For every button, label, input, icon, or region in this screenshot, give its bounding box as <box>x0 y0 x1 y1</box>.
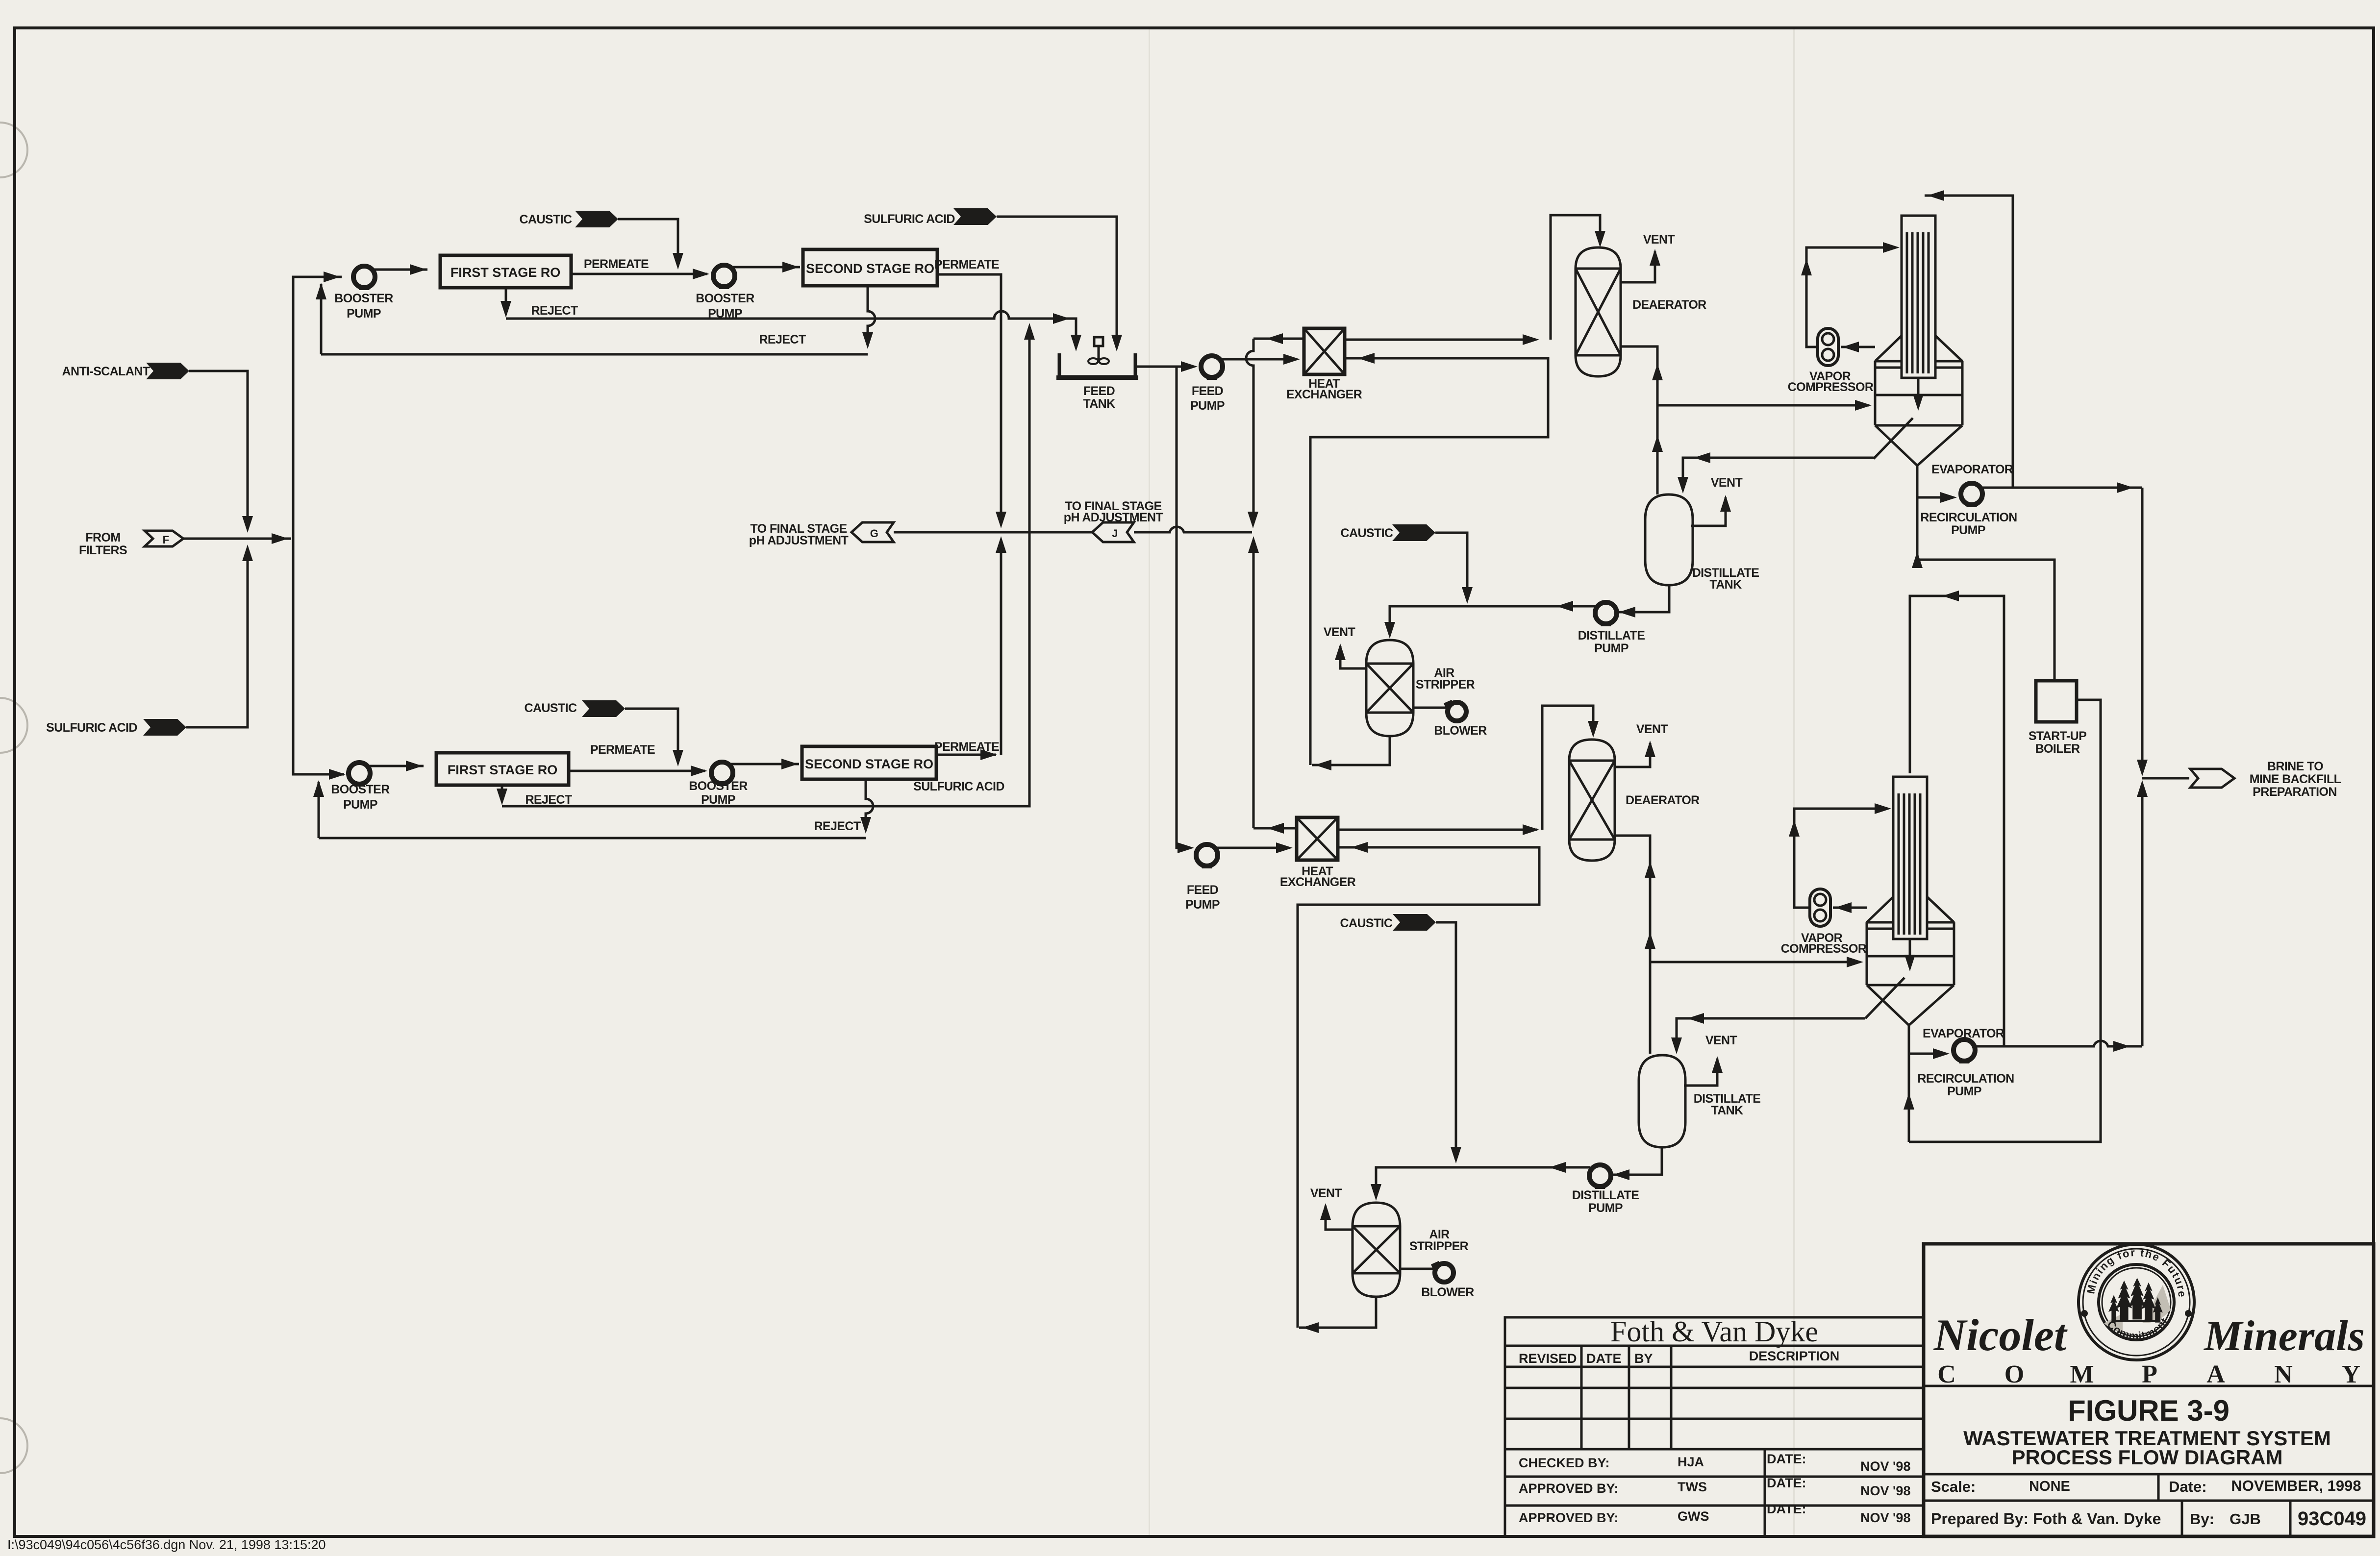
evaporator 1 body <box>1875 361 1962 425</box>
recirculation pump 2 <box>1954 1039 1975 1063</box>
svg-text:Prepared By: Foth & Van. Dyke: Prepared By: Foth & Van. Dyke <box>1931 1510 2161 1528</box>
svg-text:FIGURE 3-9: FIGURE 3-9 <box>2068 1394 2230 1427</box>
svg-text:SULFURIC ACID: SULFURIC ACID <box>46 721 137 735</box>
svg-text:SECOND STAGE RO: SECOND STAGE RO <box>806 261 934 276</box>
feed header vertical <box>293 277 342 539</box>
date column divider <box>1764 1449 1766 1536</box>
svg-text:STRIPPER: STRIPPER <box>1416 678 1475 692</box>
svg-text:FEED: FEED <box>1187 883 1218 897</box>
wire anti-scalant to junction <box>189 371 248 523</box>
svg-text:PUMP: PUMP <box>1947 1085 1981 1098</box>
compressor 1 suction from evaporator <box>1841 346 1875 348</box>
distillate tank 1 vessel <box>1645 494 1693 585</box>
svg-text:Foth & Van Dyke: Foth & Van Dyke <box>1610 1315 1818 1348</box>
SECOND STAGE RO box lower <box>802 746 936 779</box>
svg-text:VENT: VENT <box>1711 476 1743 490</box>
svg-text:BOOSTER: BOOSTER <box>696 292 754 305</box>
svg-text:MINE BACKFILL: MINE BACKFILL <box>2250 772 2341 786</box>
svg-text:APPROVED BY:: APPROVED BY: <box>1519 1510 1619 1525</box>
lower reject header to riser <box>502 327 1029 806</box>
booster pump 1 <box>353 266 375 290</box>
distillate pump 1 discharge to air stripper <box>1390 606 1596 635</box>
svg-text:NOV '98: NOV '98 <box>1860 1510 1910 1525</box>
punch hole bottom left <box>0 1418 27 1473</box>
svg-text:FEED: FEED <box>1192 384 1223 398</box>
svg-text:VENT: VENT <box>1643 233 1675 247</box>
trees <box>2108 1278 2163 1322</box>
svg-text:EXCHANGER: EXCHANGER <box>1280 875 1356 889</box>
evaporator 2 feed diagonal <box>1865 978 1904 1018</box>
svg-text:pH ADJUSTMENT: pH ADJUSTMENT <box>749 534 849 547</box>
HX1 distillate return from stripper circuit <box>1310 358 1548 765</box>
deaerator 2 vent <box>1615 743 1650 767</box>
evaporator 1 cone <box>1875 425 1962 466</box>
tank outlet wire to feed pump <box>1135 366 1191 368</box>
svg-text:BOOSTER: BOOSTER <box>689 779 748 793</box>
svg-text:APPROVED BY:: APPROVED BY: <box>1519 1481 1619 1496</box>
svg-text:TANK: TANK <box>1711 1104 1743 1117</box>
deaerator 1 bottom connection to tee <box>1621 346 1657 494</box>
svg-text:TANK: TANK <box>1083 397 1115 411</box>
svg-text:DEAERATOR: DEAERATOR <box>1632 298 1706 312</box>
wire from F flag to feed header <box>183 538 291 540</box>
svg-text:FROM: FROM <box>85 531 120 544</box>
svg-text:NONE: NONE <box>2029 1479 2070 1494</box>
svg-text:NOV '98: NOV '98 <box>1860 1483 1910 1498</box>
reject header to feed tank (hop over permeate riser) <box>506 311 1076 348</box>
svg-text:CAUSTIC: CAUSTIC <box>1341 526 1393 540</box>
company block frame <box>1924 1244 2374 1536</box>
svg-text:DISTILLATE: DISTILLATE <box>1578 629 1645 642</box>
curved text <box>2094 1256 2179 1305</box>
svg-text:BY: BY <box>1634 1351 1653 1366</box>
compressor 2 discharge to column top <box>1794 809 1888 908</box>
feed pump 2 discharge to heat exchanger 2 <box>1217 847 1289 849</box>
distillate tank 1 outlet to pump <box>1618 585 1669 612</box>
distillate pump 2 <box>1589 1165 1611 1189</box>
company logo seal <box>2079 1244 2194 1360</box>
svg-text:FIRST STAGE RO: FIRST STAGE RO <box>448 763 558 777</box>
svg-text:CHECKED BY:: CHECKED BY: <box>1519 1456 1610 1470</box>
HX1 distillate outlet to J riser <box>1253 338 1304 340</box>
svg-text:NOV '98: NOV '98 <box>1860 1459 1910 1474</box>
revision table column lines <box>1581 1346 1671 1449</box>
recirculation riser 2 with hop over boiler line <box>1910 596 2142 1046</box>
second stage reject drop lower with hop <box>866 779 873 827</box>
svg-text:VENT: VENT <box>1705 1034 1737 1047</box>
recirculation pump 1 suction <box>1917 496 1954 499</box>
evaporator 2 tube column <box>1893 777 1927 939</box>
svg-text:REJECT: REJECT <box>525 793 572 807</box>
condensate return to distillate tank 2 <box>1677 1018 1865 1051</box>
svg-text:O: O <box>2004 1360 2024 1388</box>
svg-text:BOOSTER: BOOSTER <box>334 292 393 305</box>
punch hole middle left <box>0 698 27 753</box>
compressor 2 suction from evaporator <box>1833 907 1867 909</box>
brine flag <box>2190 769 2234 788</box>
svg-text:DISTILLATE: DISTILLATE <box>1572 1188 1639 1202</box>
deaerator 1 vent <box>1621 251 1655 282</box>
sulfuric acid feed flag top middle <box>953 208 997 225</box>
svg-text:DATE:: DATE: <box>1767 1502 1806 1516</box>
svg-text:PREPARATION: PREPARATION <box>2253 785 2337 799</box>
svg-text:ANTI-SCALANT: ANTI-SCALANT <box>62 365 150 378</box>
tee down to lower feed pump <box>1177 367 1190 848</box>
permeate wire lower RO1 to pump2 <box>569 770 705 772</box>
evaporator 2 feed tee wire <box>1650 961 1860 963</box>
svg-text:PUMP: PUMP <box>1190 399 1225 413</box>
heat exchanger 2 box <box>1297 817 1338 860</box>
scan fold crease left of feed pump column <box>1149 28 1150 1536</box>
anti-scalant feed flag <box>146 363 189 379</box>
feed pump 1 <box>1201 356 1223 380</box>
HX2 distillate outlet to J riser <box>1253 827 1297 830</box>
recirculation pump 2 suction <box>1909 1053 1946 1055</box>
scan fold crease through evaporator column <box>1793 28 1795 1536</box>
svg-text:Y: Y <box>2342 1360 2360 1388</box>
svg-text:PUMP: PUMP <box>701 793 735 807</box>
svg-text:I:\93c049\94c056\4c56f36.dgn: I:\93c049\94c056\4c56f36.dgn Nov. 21, 19… <box>7 1537 326 1552</box>
svg-text:PUMP: PUMP <box>1588 1201 1623 1215</box>
second stage reject drop with hop over header <box>868 286 875 343</box>
svg-text:PERMEATE: PERMEATE <box>934 258 999 272</box>
svg-text:SULFURIC ACID: SULFURIC ACID <box>864 212 955 226</box>
wire sulfuric acid to junction <box>186 554 248 727</box>
brine header from unit 1 <box>2141 488 2144 772</box>
air stripper 1 vessel <box>1366 640 1413 736</box>
caustic feed flag lower <box>582 700 625 717</box>
svg-text:DEAERATOR: DEAERATOR <box>1626 793 1700 807</box>
svg-text:PUMP: PUMP <box>1594 642 1628 655</box>
condensate return to distillate tank 1 <box>1683 458 1874 490</box>
FIRST STAGE RO box <box>440 255 571 288</box>
evaporator 1 feed tee wire <box>1657 404 1869 407</box>
evaporator 1 tube column <box>1902 216 1935 378</box>
svg-text:GWS: GWS <box>1678 1509 1709 1524</box>
recycle riser to pump 1 feed <box>320 284 323 354</box>
svg-text:BOOSTER: BOOSTER <box>331 783 390 796</box>
svg-text:PUMP: PUMP <box>1951 523 1985 537</box>
distillate pump 1 <box>1595 602 1617 626</box>
svg-text:DATE:: DATE: <box>1767 1452 1806 1466</box>
air stripper 2 vessel <box>1353 1203 1400 1297</box>
caustic feed flag stripper 2 <box>1393 914 1436 931</box>
boiler steam wire to evaporator 1 <box>1917 560 2054 681</box>
svg-text:N: N <box>2274 1360 2293 1388</box>
flag G <box>852 522 894 542</box>
svg-text:DATE: DATE <box>1586 1351 1622 1366</box>
air stripper 1 bottoms to HX return riser <box>1312 736 1390 765</box>
svg-text:RECIRCULATION: RECIRCULATION <box>1920 511 2017 524</box>
svg-text:Nicolet: Nicolet <box>1933 1310 2068 1360</box>
svg-text:BRINE TO: BRINE TO <box>2267 760 2323 773</box>
feed tank vessel <box>1059 353 1135 377</box>
svg-text:PERMEATE: PERMEATE <box>584 257 649 271</box>
lower reject recycle wire <box>319 837 866 840</box>
svg-text:COMPRESSOR: COMPRESSOR <box>1781 942 1867 956</box>
svg-text:93C049: 93C049 <box>2298 1508 2366 1530</box>
svg-text:RECIRCULATION: RECIRCULATION <box>1917 1072 2014 1086</box>
evaporator 2 shoulders <box>1867 897 1954 922</box>
SECOND STAGE RO box <box>803 249 937 286</box>
svg-text:REJECT: REJECT <box>531 304 577 318</box>
revision table outer frame <box>1505 1317 1924 1536</box>
svg-text:DESCRIPTION: DESCRIPTION <box>1749 1349 1840 1363</box>
svg-text:GJB: GJB <box>2230 1510 2261 1528</box>
boiler wire to evaporator 2 <box>1909 700 2101 1142</box>
svg-text:BLOWER: BLOWER <box>1434 724 1487 738</box>
svg-text:CAUSTIC: CAUSTIC <box>525 701 577 715</box>
svg-text:PUMP: PUMP <box>347 307 381 321</box>
svg-text:FILTERS: FILTERS <box>79 543 127 557</box>
svg-text:PUMP: PUMP <box>1185 898 1220 912</box>
svg-text:P: P <box>2142 1360 2157 1388</box>
caustic feed flag stripper 1 <box>1392 524 1435 541</box>
feed pump 2 <box>1196 844 1218 868</box>
svg-text:VENT: VENT <box>1636 722 1668 736</box>
distillate verticals into J junction <box>1246 339 1253 519</box>
sulfuric wire into feed tank <box>997 217 1117 348</box>
svg-text:BLOWER: BLOWER <box>1421 1285 1474 1299</box>
evaporator 2 body <box>1867 922 1954 985</box>
svg-text:SECOND STAGE RO: SECOND STAGE RO <box>805 757 933 771</box>
recirculation riser 1 <box>1925 196 2142 488</box>
svg-text:EVAPORATOR: EVAPORATOR <box>1931 463 2013 476</box>
HX2 feed outlet to deaerator 2 jog <box>1338 829 1537 831</box>
svg-text:CAUSTIC: CAUSTIC <box>1340 916 1393 930</box>
deaerator 2 bottom connection to tee <box>1615 836 1650 1054</box>
flag F <box>145 531 183 546</box>
svg-text:CAUSTIC: CAUSTIC <box>520 213 572 226</box>
blower 2 <box>1400 1268 1434 1270</box>
air stripper 1 vent <box>1340 646 1366 668</box>
svg-text:EXCHANGER: EXCHANGER <box>1286 388 1362 401</box>
svg-text:BOILER: BOILER <box>2035 742 2080 756</box>
punch hole top left <box>0 123 27 177</box>
evaporator 1 bottom outlet line <box>1916 466 1919 560</box>
evaporator 2 cone <box>1867 985 1954 1025</box>
reject drop from first stage RO <box>505 288 507 313</box>
svg-text:FIRST STAGE RO: FIRST STAGE RO <box>451 265 561 280</box>
svg-text:PUMP: PUMP <box>708 307 742 321</box>
svg-text:Date:: Date: <box>2169 1478 2207 1495</box>
svg-text:PROCESS FLOW DIAGRAM: PROCESS FLOW DIAGRAM <box>2012 1446 2283 1469</box>
svg-text:REJECT: REJECT <box>759 333 805 346</box>
deaerator 1 vessel <box>1576 247 1621 376</box>
riser from lower reject header (up arrow) <box>1024 323 1035 340</box>
FIRST STAGE RO box lower <box>436 753 569 785</box>
evaporator 1 shoulders <box>1875 336 1962 361</box>
HX2 distillate return from stripper circuit <box>1298 847 1539 1328</box>
distillate tank 1 vent <box>1691 497 1726 526</box>
flag J <box>1092 522 1134 542</box>
distillate tank 2 vent <box>1684 1059 1717 1086</box>
svg-text:F: F <box>163 534 169 546</box>
evaporator 1 feed diagonal <box>1874 418 1913 459</box>
evaporator 1 center drop <box>1917 378 1920 405</box>
svg-text:Scale:: Scale: <box>1931 1478 1976 1495</box>
G line to permeate junction <box>894 531 1092 534</box>
air stripper 2 vent <box>1326 1206 1353 1230</box>
reject drop lower first stage <box>501 785 503 800</box>
svg-text:HJA: HJA <box>1678 1455 1704 1469</box>
compressor 1 discharge to column top <box>1806 247 1896 347</box>
svg-text:START-UP: START-UP <box>2029 729 2086 743</box>
caustic wire into stripper 2 feed line <box>1436 922 1456 1159</box>
svg-text:NOVEMBER, 1998: NOVEMBER, 1998 <box>2231 1477 2361 1494</box>
svg-text:By:: By: <box>2190 1510 2214 1528</box>
vapor compressor 1 <box>1818 328 1838 366</box>
feed header to lower train <box>293 539 344 774</box>
svg-text:SULFURIC ACID: SULFURIC ACID <box>913 780 1004 793</box>
svg-text:TANK: TANK <box>1709 578 1742 592</box>
evaporator 2 bottom outlet line <box>1908 1025 1910 1142</box>
brine junction line to flag <box>2142 777 2189 780</box>
svg-text:STRIPPER: STRIPPER <box>1409 1239 1469 1253</box>
reject recycle line back to pump1 <box>321 353 868 356</box>
agitator <box>1094 337 1103 346</box>
svg-text:PERMEATE: PERMEATE <box>934 740 999 754</box>
recirculation pump 1 <box>1961 483 1982 507</box>
vapor compressor 2 <box>1810 889 1830 926</box>
mountain halftone <box>2142 1285 2171 1323</box>
distillate tank 2 vessel <box>1639 1055 1685 1147</box>
caustic wire into permeate line <box>618 219 678 261</box>
caustic wire into stripper feed line <box>1435 533 1467 599</box>
evaporator 2 center drop <box>1909 939 1911 965</box>
svg-text:A: A <box>2206 1360 2225 1388</box>
recycle riser to lower pump feed <box>318 782 320 838</box>
svg-text:REVISED: REVISED <box>1519 1351 1577 1366</box>
booster pump 2 <box>713 265 735 289</box>
air stripper 2 bottoms to HX2 return riser <box>1299 1297 1376 1328</box>
distillate tank 2 outlet to pump <box>1612 1147 1662 1175</box>
caustic wire into lower permeate <box>625 709 678 759</box>
permeate wire RO1 to booster pump 2 <box>571 273 707 275</box>
permeate wire lower RO2 up to G junction <box>936 754 996 756</box>
svg-text:FEED: FEED <box>1083 384 1115 398</box>
svg-text:REJECT: REJECT <box>814 819 860 833</box>
brine from unit 2 <box>2141 784 2144 1046</box>
feed pump 1 discharge to heat exchanger <box>1221 358 1297 361</box>
svg-text:DATE:: DATE: <box>1767 1476 1806 1490</box>
wire lower pump1 to first stage RO <box>367 765 424 767</box>
svg-text:COMPRESSOR: COMPRESSOR <box>1788 380 1874 394</box>
svg-text:PERMEATE: PERMEATE <box>590 743 655 757</box>
wire pump2 to second stage RO <box>731 266 800 269</box>
svg-text:VENT: VENT <box>1324 625 1355 639</box>
svg-text:TWS: TWS <box>1678 1480 1707 1494</box>
booster pump 1 lower <box>349 763 370 787</box>
permeate wire RO2 down to G junction <box>937 274 1001 519</box>
deaerator 2 vessel <box>1569 740 1615 861</box>
svg-text:VENT: VENT <box>1310 1186 1342 1200</box>
J line with hop over tank tee <box>1134 527 1252 532</box>
svg-text:M: M <box>2070 1360 2094 1388</box>
blower 1 <box>1413 707 1447 709</box>
svg-text:Minerals: Minerals <box>2203 1312 2365 1360</box>
HX1 feed outlet to deaerator jog <box>1345 339 1536 341</box>
caustic feed flag top <box>575 211 618 227</box>
svg-text:G: G <box>870 527 878 540</box>
heat exchanger 1 box <box>1304 328 1345 374</box>
booster pump 2 lower <box>711 762 733 786</box>
wire pump1 to first stage RO <box>372 269 427 271</box>
wire lower pump2 to second stage RO <box>729 763 799 766</box>
svg-text:C: C <box>1937 1360 1956 1388</box>
sulfuric acid feed flag left <box>143 719 186 736</box>
svg-text:J: J <box>1112 527 1118 540</box>
distillate pump 2 discharge to air stripper 2 <box>1376 1167 1590 1197</box>
svg-text:PUMP: PUMP <box>343 798 377 812</box>
